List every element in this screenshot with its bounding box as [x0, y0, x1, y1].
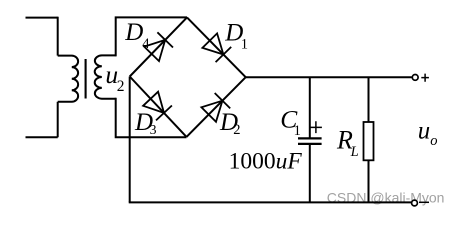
capacitor C1 bottom lead — [309, 144, 311, 202]
svg-text:3: 3 — [150, 122, 157, 137]
svg-text:L: L — [350, 144, 359, 160]
svg-text:1000uF: 1000uF — [229, 149, 303, 175]
terminal output minus — [412, 200, 418, 206]
wire secondary top to bridge — [116, 17, 187, 56]
svg-text:1: 1 — [241, 37, 248, 53]
svg-text:u: u — [418, 118, 430, 145]
terminal output plus — [412, 75, 418, 81]
wire secondary bottom to bridge bottom corner — [116, 98, 187, 138]
svg-text:2: 2 — [233, 122, 240, 138]
svg-text:D: D — [124, 19, 143, 46]
svg-text:1: 1 — [294, 123, 301, 139]
wire primary bottom feed — [57, 102, 59, 138]
capacitor C1 top lead — [309, 77, 311, 138]
wire bridge edge left-top — [130, 17, 187, 76]
wire DC minus vertical from left corner — [129, 77, 131, 203]
diode D1 — [202, 33, 231, 62]
wire primary bottom stub — [26, 136, 58, 138]
resistor RL top lead — [368, 77, 370, 122]
transformer core — [85, 59, 87, 99]
minus sign at output — [419, 201, 429, 203]
svg-text:o: o — [430, 133, 437, 149]
wire top rail — [246, 76, 412, 78]
diode D4 — [144, 32, 173, 61]
inductor primary winding of transformer — [58, 56, 78, 102]
wire bridge edge bottom-right — [187, 77, 246, 137]
resistor RL body — [364, 122, 374, 160]
resistor RL bottom lead — [368, 160, 370, 202]
wire bridge edge top-right — [187, 17, 246, 77]
wire primary top stub — [26, 17, 58, 19]
wire bridge edge left-bottom — [130, 77, 187, 137]
capacitor C1 plates — [298, 138, 322, 144]
svg-text:2: 2 — [117, 78, 125, 95]
diode D3 — [143, 92, 172, 121]
wire primary top feed — [57, 17, 59, 56]
diode D2 — [201, 93, 230, 122]
svg-text:4: 4 — [142, 36, 150, 52]
plus sign at capacitor — [310, 121, 322, 133]
wire bottom rail — [129, 201, 412, 203]
plus sign at output — [421, 74, 429, 82]
inductor secondary winding u2 — [95, 55, 116, 98]
